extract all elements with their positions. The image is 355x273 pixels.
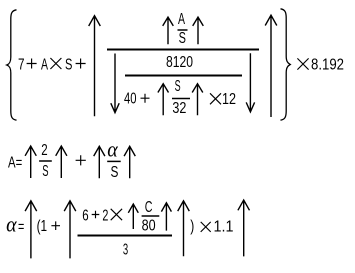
left brace { — [7, 10, 17, 120]
tall arrow r3-1 — [25, 201, 37, 259]
2/S bar — [39, 160, 52, 162]
svg-text:6: 6 — [82, 207, 88, 224]
svg-text:40: 40 — [124, 91, 137, 108]
svg-text:12: 12 — [222, 91, 236, 108]
times 6+2x — [111, 209, 122, 220]
svg-text:1.1: 1.1 — [214, 219, 234, 236]
main fraction bar — [107, 49, 259, 51]
svg-text:8120: 8120 — [166, 54, 193, 71]
svg-text:2: 2 — [102, 207, 108, 224]
svg-text:S: S — [65, 57, 72, 74]
svg-text:A=: A= — [8, 155, 22, 172]
plus 6+ — [92, 211, 100, 219]
times r1 — [50, 58, 61, 69]
svg-text:80: 80 — [142, 218, 156, 235]
svg-text:8.192: 8.192 — [311, 57, 344, 74]
svg-text:2: 2 — [41, 142, 47, 159]
arrow r2-2 — [56, 146, 67, 178]
svg-text:(1: (1 — [37, 218, 48, 235]
times x12 — [210, 93, 221, 104]
svg-text:=: = — [18, 219, 24, 236]
small up arrow num-right — [193, 17, 204, 44]
tall arrow r3-4 — [238, 200, 250, 257]
r3 fraction bar — [78, 235, 173, 237]
svg-text:7: 7 — [18, 57, 25, 74]
plus r1b — [76, 59, 86, 69]
plus 40+ — [141, 94, 150, 103]
times x1.1 — [201, 222, 211, 232]
svg-text:S: S — [111, 164, 119, 181]
svg-text:3: 3 — [123, 242, 128, 259]
plus (1+ — [51, 221, 60, 230]
small up arrow den-right — [192, 84, 203, 116]
svg-text:): ) — [190, 218, 194, 235]
svg-text:α: α — [6, 212, 17, 237]
svg-text:α: α — [107, 137, 118, 162]
arrow r2-3 — [94, 146, 105, 178]
right brace } — [281, 9, 291, 120]
svg-text:S: S — [42, 163, 48, 180]
small arrow C-left — [128, 204, 138, 229]
a/S bar — [107, 160, 121, 162]
C/80 bar — [142, 215, 160, 217]
svg-text:S: S — [175, 78, 181, 95]
svg-text:A: A — [178, 11, 185, 28]
arrow r2-1 — [25, 146, 36, 178]
small up arrow den-left — [158, 84, 169, 116]
tall arrow r3-2 — [64, 201, 76, 259]
svg-text:C: C — [145, 199, 153, 216]
inner fraction bar — [125, 75, 242, 77]
svg-text:32: 32 — [172, 100, 186, 117]
tall ceil arrow left — [89, 16, 101, 117]
tall arrow r3-3 — [178, 201, 190, 257]
svg-text:A: A — [41, 57, 48, 74]
floor down arrow left — [111, 54, 119, 113]
small up arrow num-left — [163, 17, 174, 44]
plus r2 — [76, 155, 86, 165]
floor down arrow right — [246, 53, 254, 112]
plus r1a — [27, 59, 37, 69]
S/32 bar — [172, 98, 190, 100]
arrow r2-4 — [124, 146, 135, 178]
times x8.192 — [297, 58, 308, 69]
small arrow C-right — [161, 203, 171, 231]
svg-text:S: S — [179, 30, 186, 47]
tall ceil arrow right — [265, 15, 277, 117]
A/S bar — [178, 29, 188, 31]
